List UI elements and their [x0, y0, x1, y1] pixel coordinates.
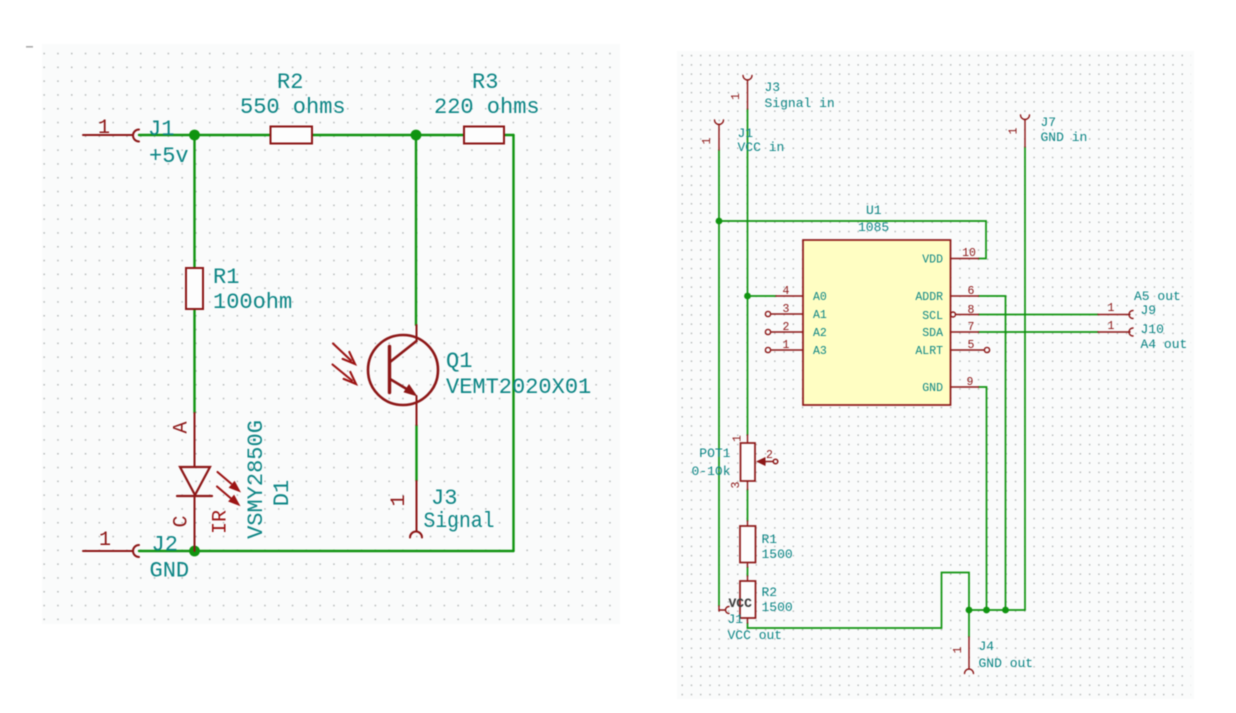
svg-text:5: 5	[968, 339, 975, 352]
svg-text:R1: R1	[762, 532, 778, 547]
svg-text:8: 8	[968, 304, 975, 317]
svg-text:4: 4	[783, 285, 790, 298]
svg-text:VSMY2850G: VSMY2850G	[244, 420, 269, 539]
svg-text:ALRT: ALRT	[915, 345, 943, 358]
svg-text:GND: GND	[150, 559, 190, 584]
svg-text:U1: U1	[866, 203, 882, 218]
svg-text:VDD: VDD	[922, 254, 943, 267]
svg-text:220 ohms: 220 ohms	[434, 95, 540, 120]
svg-text:C: C	[171, 515, 194, 527]
svg-text:SCL: SCL	[922, 310, 943, 323]
svg-text:1: 1	[701, 137, 714, 144]
svg-text:1: 1	[99, 529, 111, 552]
svg-text:3: 3	[783, 303, 790, 316]
svg-text:VCC out: VCC out	[728, 628, 783, 643]
svg-text:9: 9	[967, 376, 974, 389]
svg-text:1: 1	[388, 494, 411, 506]
svg-text:A4 out: A4 out	[1141, 337, 1188, 352]
svg-text:0-10k: 0-10k	[691, 464, 730, 479]
svg-text:A: A	[171, 421, 194, 433]
svg-text:R2: R2	[277, 70, 303, 95]
svg-text:R1: R1	[213, 265, 239, 290]
svg-text:7: 7	[968, 321, 975, 334]
svg-text:1085: 1085	[858, 220, 889, 235]
svg-text:550 ohms: 550 ohms	[240, 95, 346, 120]
svg-text:1: 1	[98, 117, 110, 140]
svg-text:GND: GND	[922, 382, 943, 395]
svg-text:1: 1	[1108, 302, 1115, 315]
svg-text:GND out: GND out	[979, 656, 1034, 671]
svg-text:R3: R3	[472, 70, 498, 95]
svg-text:VCC: VCC	[729, 596, 753, 611]
svg-text:1: 1	[732, 435, 745, 442]
svg-text:IR: IR	[210, 510, 233, 534]
svg-text:A0: A0	[813, 291, 827, 304]
svg-text:J1: J1	[148, 117, 174, 142]
svg-text:GND in: GND in	[1041, 130, 1088, 145]
svg-text:2: 2	[766, 449, 773, 462]
svg-text:6: 6	[968, 285, 975, 298]
svg-text:2: 2	[783, 321, 790, 334]
svg-text:VEMT2020X01: VEMT2020X01	[446, 375, 591, 400]
svg-text:1: 1	[730, 93, 743, 100]
svg-text:Q1: Q1	[446, 349, 472, 374]
svg-text:J9: J9	[1141, 303, 1157, 318]
svg-text:Signal: Signal	[424, 509, 495, 534]
svg-text:POT1: POT1	[699, 446, 730, 461]
svg-text:Signal in: Signal in	[765, 96, 835, 111]
svg-text:J1: J1	[728, 612, 744, 627]
svg-text:1500: 1500	[762, 600, 793, 615]
svg-text:1: 1	[783, 339, 790, 352]
svg-text:1: 1	[952, 646, 965, 653]
svg-text:A2: A2	[813, 327, 827, 340]
svg-text:3: 3	[730, 481, 743, 488]
svg-text:VCC in: VCC in	[738, 140, 785, 155]
svg-text:J4: J4	[979, 639, 995, 654]
svg-text:A5 out: A5 out	[1134, 289, 1181, 304]
svg-text:D1: D1	[270, 480, 295, 506]
svg-text:100ohm: 100ohm	[213, 290, 292, 315]
svg-text:10: 10	[962, 247, 976, 260]
svg-text:J7: J7	[1041, 115, 1057, 130]
svg-text:J1: J1	[738, 126, 754, 141]
svg-text:R2: R2	[762, 585, 778, 600]
svg-text:1500: 1500	[762, 547, 793, 562]
svg-text:J10: J10	[1141, 322, 1164, 337]
svg-text:J3: J3	[431, 486, 457, 511]
svg-text:SDA: SDA	[922, 327, 943, 340]
svg-text:A1: A1	[813, 309, 827, 322]
svg-text:J2: J2	[152, 533, 178, 558]
svg-text:1: 1	[1108, 320, 1115, 333]
svg-text:A3: A3	[813, 345, 827, 358]
svg-text:J3: J3	[765, 80, 781, 95]
svg-text:+5v: +5v	[149, 144, 189, 169]
svg-text:ADDR: ADDR	[915, 291, 943, 304]
svg-text:1: 1	[1008, 127, 1021, 134]
